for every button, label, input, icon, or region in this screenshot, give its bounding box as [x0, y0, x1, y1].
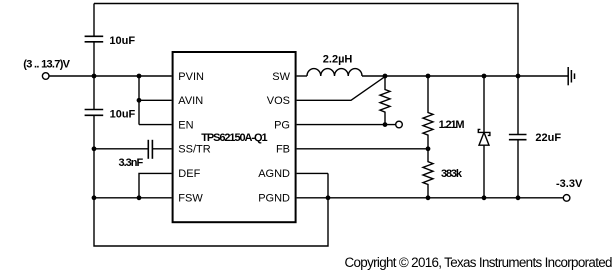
svg-text:FSW: FSW: [178, 193, 203, 205]
capacitor C1 10uF plates: [85, 36, 104, 42]
node FB junction: [426, 146, 431, 151]
svg-text:AVIN: AVIN: [178, 95, 203, 107]
svg-text:Copyright © 2016, Texas Instru: Copyright © 2016, Texas Instruments Inco…: [345, 255, 613, 270]
svg-text:TPS62150A-Q1: TPS62150A-Q1: [201, 132, 267, 144]
svg-text:10uF: 10uF: [109, 35, 135, 47]
svg-text:2.2µH: 2.2µH: [323, 53, 353, 65]
wire FB: [297, 148, 428, 150]
wire AGND: [297, 172, 328, 174]
node DEF/FSW junction: [137, 195, 142, 200]
wire PG: [297, 124, 396, 126]
wire SS/TR right: [153, 148, 172, 150]
svg-text:SW: SW: [272, 71, 290, 83]
svg-text:EN: EN: [178, 119, 193, 131]
wire top rail: [94, 4, 518, 77]
node PG terminal: [396, 121, 403, 128]
capacitor C4 22uF: [517, 76, 519, 135]
node SS/TR junction: [92, 146, 97, 151]
node AVIN pin junction: [137, 98, 142, 103]
wire SW: [297, 75, 307, 77]
svg-text:SS/TR: SS/TR: [178, 144, 210, 156]
svg-text:1.21M: 1.21M: [439, 119, 465, 131]
node PGND junction: [326, 195, 331, 200]
node input/C1C2 junction: [92, 74, 97, 79]
wire ground return (left vertical, bottom rail, AGND riser): [94, 115, 328, 246]
capacitor C3 3.3nF plates: [148, 140, 152, 159]
wire AVIN/EN branch: [139, 76, 172, 125]
svg-text:-3.3V: -3.3V: [556, 178, 583, 190]
svg-text:VOS: VOS: [267, 95, 290, 107]
wire FSW: [94, 197, 172, 199]
node C4 top junction: [516, 74, 521, 79]
diode D1 (zener): [483, 76, 485, 132]
resistor R2 383k: [423, 149, 433, 198]
node FSW junction left: [92, 195, 97, 200]
svg-text:FB: FB: [276, 144, 290, 156]
svg-text:3.3nF: 3.3nF: [119, 157, 144, 169]
svg-text:383k: 383k: [441, 168, 463, 180]
svg-text:DEF: DEF: [178, 168, 200, 180]
node diode top junction: [482, 74, 487, 79]
svg-text:PG: PG: [274, 119, 290, 131]
wire input branch x=94 middle segment: [93, 42, 95, 110]
resistor R1 1.21M: [423, 76, 433, 149]
wire input rail: [49, 75, 172, 77]
wire VOS with diagonal: [297, 77, 385, 101]
svg-text:AGND: AGND: [258, 168, 290, 180]
op-amp U1 IC box TPS62150A-Q1: [173, 52, 296, 222]
node input terminal: [42, 73, 49, 80]
wire input branch x=94 upper segment: [93, 4, 95, 37]
svg-text:10uF: 10uF: [110, 108, 136, 120]
node diode bottom junction: [482, 195, 487, 200]
inductor L1 2.2uH: [307, 69, 362, 76]
wire PGND / output rail: [297, 197, 563, 199]
node C4 bottom junction: [516, 195, 521, 200]
svg-text:PVIN: PVIN: [178, 71, 204, 83]
svg-text:PGND: PGND: [258, 193, 290, 205]
node AVIN branch junction: [137, 74, 142, 79]
svg-text:(3 .. 13.7)V: (3 .. 13.7)V: [23, 59, 70, 71]
svg-text:22uF: 22uF: [535, 132, 561, 144]
node output terminal: [563, 195, 570, 202]
wire DEF branch: [139, 173, 172, 197]
ground symbol: [568, 67, 574, 85]
node PG junction: [383, 122, 388, 127]
node R2 bottom junction: [426, 195, 431, 200]
resistor R3 (PG pull-up): [380, 76, 390, 125]
capacitor C2 10uF plates: [85, 110, 104, 116]
node SW/VOS junction: [383, 74, 388, 79]
wire SW rail: [362, 75, 568, 77]
node R1 top junction: [426, 74, 431, 79]
wire SS/TR left: [94, 148, 148, 150]
